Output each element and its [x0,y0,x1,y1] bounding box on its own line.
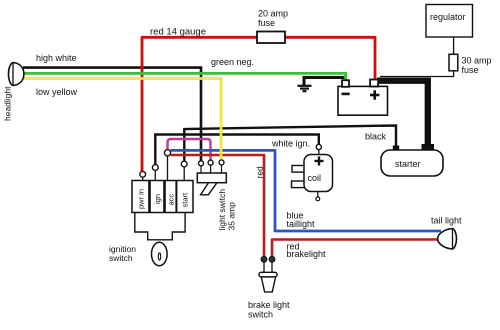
svg-text:switch: switch [109,253,133,263]
node: ignition acc terminal [164,150,170,156]
svg-text:coil: coil [308,173,322,183]
starter cable terminal [422,144,435,151]
battery BT1 [338,80,388,116]
svg-text:start: start [181,192,190,208]
svg-text:green neg.: green neg. [211,57,254,67]
node: ignition ign terminal [152,165,158,171]
svg-text:35 amp: 35 amp [227,202,237,231]
svg-text:20 amp: 20 amp [258,9,288,19]
fuse F1 20 amp [257,32,285,44]
svg-text:ign: ign [153,194,162,204]
node: light switch terminal 1 [199,161,204,166]
wire: ground branch from battery negative [304,78,346,86]
svg-text:headlight: headlight [3,86,13,121]
fuse F2 30 amp [449,54,458,71]
wire: thick battery positive cable to starter [377,81,428,146]
ground symbol [298,86,312,91]
brake light switch S3 [259,261,277,292]
regulator U1 [426,5,473,38]
starter M1 [381,150,443,176]
svg-text:red: red [255,166,265,179]
wire: thin regulator lead to 30 amp fuse [453,37,455,55]
wire: black from ignition START terminal to starter [184,126,396,162]
node: brake switch terminal 2 [269,257,275,263]
node: light switch terminal 3 [219,160,224,165]
svg-text:low yellow: low yellow [36,87,78,97]
wire: thin lead 30 amp fuse to battery cable [380,71,454,77]
node: brake switch terminal 1 [261,257,267,263]
wire: red 14 gauge supply from battery positive to ignition PWR IN [142,37,375,171]
svg-text:regulator: regulator [430,12,466,22]
wire: blue taillight wire [171,150,442,231]
coil T1 [292,155,333,201]
wire: green negative from headlight to battery negative [23,73,346,80]
wire: red accessory to brake light switch [171,155,265,257]
node: ignition start terminal [181,161,187,167]
svg-text:brake light: brake light [248,300,290,310]
svg-text:starter: starter [395,159,421,169]
svg-text:pwr in: pwr in [137,189,146,209]
light switch S2 [197,165,226,195]
svg-text:brakelight: brakelight [287,249,327,259]
node: ignition pwr in terminal [140,171,146,177]
svg-text:30 amp: 30 amp [462,56,492,66]
node: coil + terminal [316,144,321,149]
svg-text:white ign.: white ign. [271,139,310,149]
svg-text:acc: acc [167,194,176,206]
svg-text:red 14 gauge: red 14 gauge [150,27,206,38]
wire: red brakelight wire to tail light [272,240,438,257]
svg-text:black: black [365,132,387,142]
svg-text:light switch: light switch [217,189,227,231]
tail light [438,229,457,250]
ignition switch S1 [132,156,193,213]
wire: pink accessory feed to light switch terminal 2 [168,139,211,160]
svg-text:tail light: tail light [431,216,462,226]
ignition switch key barrel [135,213,185,266]
node: light switch terminal 2 [208,160,213,165]
svg-text:switch: switch [248,310,273,320]
svg-text:fuse: fuse [258,18,275,28]
wire: yellow low-beam from headlight to light switch terminal 3 [23,79,221,161]
svg-text:high white: high white [36,53,77,63]
headlight [8,63,23,86]
starter trigger terminal [393,146,399,151]
wire: white ign from ignition IGN terminal to coil [155,135,318,165]
svg-text:fuse: fuse [462,65,479,75]
svg-text:taillight: taillight [287,219,316,229]
wire: white high-beam from headlight to light switch terminal 1 [23,68,201,161]
